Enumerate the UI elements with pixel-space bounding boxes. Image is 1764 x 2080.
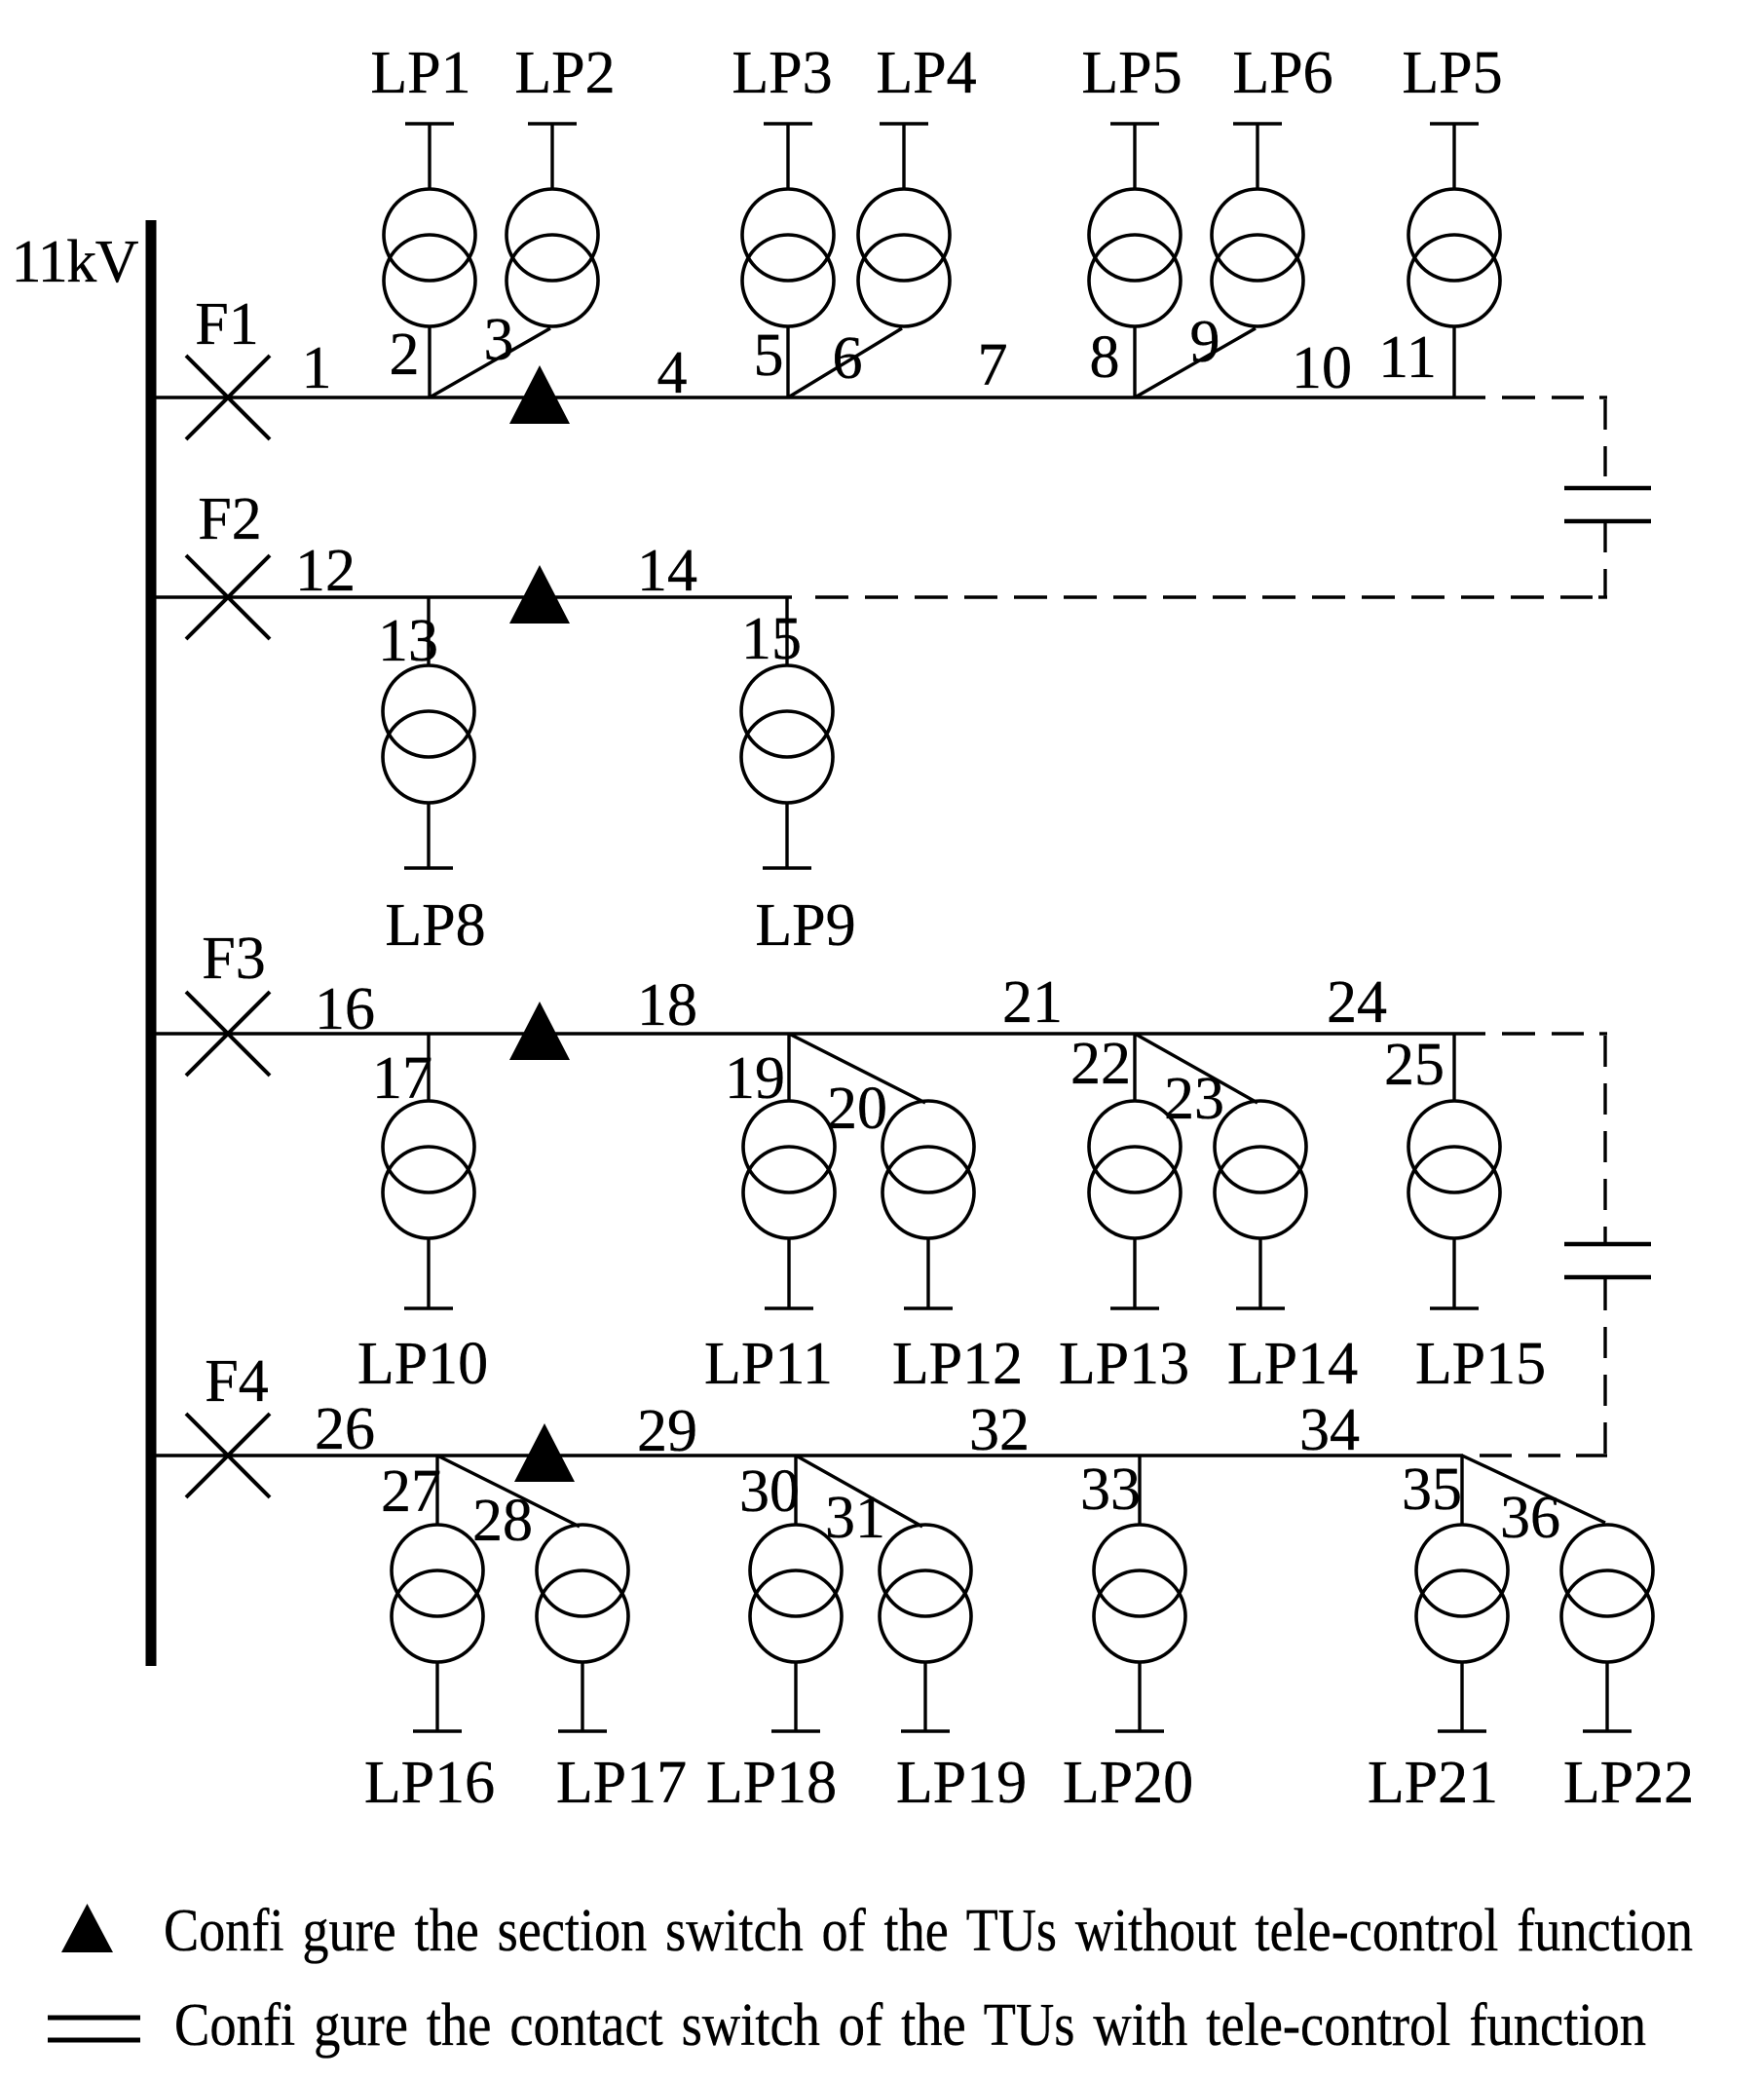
- tie wire F1-F2 (vertical dashed, lower): [1603, 523, 1606, 597]
- svg-text:3: 3: [484, 307, 514, 373]
- svg-text:32: 32: [969, 1397, 1030, 1463]
- svg-text:36: 36: [1500, 1485, 1560, 1551]
- svg-text:14: 14: [637, 538, 697, 604]
- section switch S2 (solid triangle): [509, 565, 570, 624]
- section switch S4 (solid triangle): [514, 1423, 575, 1482]
- svg-text:LP1: LP1: [370, 40, 470, 106]
- svg-text:LP5: LP5: [1402, 40, 1502, 106]
- svg-text:5: 5: [754, 322, 784, 389]
- svg-text:27: 27: [381, 1458, 441, 1525]
- load terminal LP16: [413, 1662, 462, 1731]
- contact switch C2 (tele-controlled tie switch): [1564, 1244, 1651, 1277]
- svg-text:F4: F4: [205, 1348, 268, 1415]
- legend contact-switch symbol (double line): [48, 2018, 140, 2040]
- branch wire 23 (slant to LP14): [1135, 1034, 1257, 1103]
- svg-text:LP21: LP21: [1368, 1750, 1498, 1816]
- svg-text:31: 31: [825, 1485, 885, 1551]
- load terminal LP11: [765, 1238, 813, 1308]
- transformer LP14: [1215, 1101, 1306, 1238]
- wire drop node 5 (LP3 branch): [786, 326, 789, 397]
- wire drop node 19 (LP11 branch): [787, 1034, 790, 1101]
- svg-text:LP14: LP14: [1227, 1331, 1358, 1397]
- svg-text:LP12: LP12: [892, 1331, 1023, 1397]
- svg-text:7: 7: [978, 332, 1008, 398]
- transformer LP10: [383, 1101, 474, 1238]
- svg-text:10: 10: [1292, 335, 1352, 401]
- branch wire 31 (slant to LP19): [796, 1456, 922, 1527]
- svg-text:23: 23: [1164, 1066, 1224, 1132]
- svg-text:22: 22: [1070, 1031, 1131, 1097]
- svg-text:16: 16: [315, 976, 375, 1042]
- wire drop node 25 (LP15 branch): [1452, 1034, 1455, 1101]
- svg-text:25: 25: [1384, 1032, 1445, 1098]
- load terminal LP13: [1110, 1238, 1159, 1308]
- feeder breaker F2 (X symbol): [186, 555, 270, 639]
- transformer LP1: [384, 189, 475, 326]
- svg-text:29: 29: [637, 1398, 697, 1464]
- svg-text:F2: F2: [198, 486, 261, 552]
- transformer LP12: [882, 1101, 974, 1238]
- feeder F2 tie wire (dashed): [815, 595, 1607, 598]
- svg-text:LP22: LP22: [1563, 1750, 1694, 1816]
- feeder breaker F1 (X symbol): [186, 356, 270, 439]
- transformer LP18: [750, 1525, 842, 1662]
- transformer LP6: [1212, 189, 1303, 326]
- svg-text:LP20: LP20: [1063, 1750, 1193, 1816]
- svg-text:28: 28: [472, 1488, 533, 1554]
- svg-text:LP4: LP4: [876, 40, 976, 106]
- svg-text:LP18: LP18: [706, 1750, 837, 1816]
- svg-text:24: 24: [1327, 969, 1387, 1036]
- svg-text:LP17: LP17: [556, 1750, 687, 1816]
- svg-text:LP15: LP15: [1415, 1331, 1546, 1397]
- transformer LP17: [537, 1525, 628, 1662]
- feeder F1 tie wire (dashed): [1502, 396, 1607, 398]
- transformer LP16: [392, 1525, 483, 1662]
- load terminal LP14: [1236, 1238, 1285, 1308]
- tie wire F3-F4 (vertical dashed, upper): [1603, 1036, 1606, 1244]
- transformer LP9: [741, 665, 833, 803]
- load terminal LP18: [771, 1662, 820, 1731]
- svg-text:F3: F3: [202, 926, 265, 992]
- tie wire F3-F4 (vertical dashed, lower): [1603, 1279, 1606, 1456]
- svg-text:LP10: LP10: [357, 1331, 488, 1397]
- svg-text:26: 26: [315, 1396, 375, 1462]
- branch wire 9 (slant to LP6): [1135, 328, 1256, 397]
- transformer LP11: [743, 1101, 835, 1238]
- feeder breaker F3 (X symbol): [186, 992, 270, 1076]
- branch wire 20 (slant to LP12): [789, 1034, 925, 1103]
- svg-text:LP9: LP9: [755, 892, 855, 959]
- wire drop node 15 (LP9 branch): [785, 597, 788, 666]
- wire drop node 33 (LP20 branch): [1138, 1456, 1141, 1525]
- svg-text:21: 21: [1002, 969, 1063, 1036]
- svg-text:LP13: LP13: [1059, 1331, 1189, 1397]
- svg-text:LP16: LP16: [364, 1750, 495, 1816]
- wire drop node 30 (LP18 branch): [794, 1456, 797, 1525]
- transformer LP3: [742, 189, 834, 326]
- svg-text:9: 9: [1190, 309, 1220, 375]
- svg-text:LP11: LP11: [704, 1331, 833, 1397]
- feeder F3 tie wire (dashed): [1502, 1032, 1607, 1035]
- feeder F4 wire (solid main line): [151, 1454, 1463, 1456]
- svg-text:LP8: LP8: [385, 892, 485, 959]
- transformer LP13: [1089, 1101, 1181, 1238]
- wire drop node 11 (LP5 branch): [1452, 326, 1455, 397]
- load terminal LP5: [1430, 124, 1479, 189]
- transformer LP15: [1408, 1101, 1500, 1238]
- svg-text:34: 34: [1299, 1397, 1360, 1463]
- svg-text:LP2: LP2: [514, 40, 615, 106]
- feeder F2 wire (solid main line): [151, 595, 792, 598]
- 11kV busbar: [146, 220, 157, 1666]
- load terminal LP6: [1233, 124, 1282, 189]
- svg-text:4: 4: [657, 340, 688, 406]
- svg-text:LP6: LP6: [1232, 40, 1332, 106]
- svg-text:12: 12: [295, 538, 356, 604]
- svg-text:LP5: LP5: [1081, 40, 1182, 106]
- svg-text:LP19: LP19: [896, 1750, 1027, 1816]
- load terminal LP8: [404, 803, 453, 868]
- load terminal LP22: [1583, 1662, 1632, 1731]
- section switch S3 (solid triangle): [509, 1002, 570, 1060]
- legend section-switch symbol (solid triangle): [61, 1904, 113, 1952]
- load terminal LP9: [763, 803, 811, 868]
- load terminal LP21: [1438, 1662, 1486, 1731]
- svg-text:F1: F1: [195, 291, 258, 358]
- branch wire 3 (slant to LP2): [430, 328, 550, 397]
- load terminal LP10: [404, 1238, 453, 1308]
- branch wire 6 (slant to LP4): [788, 328, 902, 397]
- branch wire 36 (slant to LP22): [1462, 1456, 1605, 1523]
- svg-text:Confi gure the contact switch: Confi gure the contact switch of the TUs…: [174, 1992, 1646, 2059]
- svg-text:LP3: LP3: [732, 40, 832, 106]
- transformer LP22: [1561, 1525, 1653, 1662]
- transformer LP21: [1416, 1525, 1508, 1662]
- svg-text:15: 15: [741, 606, 802, 672]
- svg-text:35: 35: [1402, 1456, 1462, 1523]
- tie wire F1-F2 (vertical dashed, upper): [1603, 399, 1606, 476]
- branch wire 28 (slant to LP17): [437, 1456, 580, 1527]
- svg-text:18: 18: [637, 972, 697, 1039]
- load terminal LP3: [764, 124, 812, 189]
- feeder F4 tie wire (dashed): [1480, 1454, 1607, 1456]
- wire drop node 27 (LP16 branch): [435, 1456, 438, 1525]
- transformer LP5: [1089, 189, 1181, 326]
- wire drop node 2 (LP1 branch): [428, 326, 431, 397]
- transformer LP8: [383, 665, 474, 803]
- svg-text:1: 1: [302, 335, 332, 401]
- contact switch C1 (tele-controlled tie switch): [1564, 488, 1651, 521]
- transformer LP19: [880, 1525, 971, 1662]
- feeder breaker F4 (X symbol): [186, 1414, 270, 1497]
- load terminal LP17: [558, 1662, 607, 1731]
- transformer LP2: [507, 189, 598, 326]
- feeder F1 wire (solid main line): [151, 396, 1485, 398]
- transformer LP5: [1408, 189, 1500, 326]
- section switch S1 (solid triangle): [509, 365, 570, 424]
- transformer LP20: [1094, 1525, 1185, 1662]
- svg-text:33: 33: [1080, 1456, 1141, 1523]
- load terminal LP15: [1430, 1238, 1479, 1308]
- svg-text:Confi gure the section switch: Confi gure the section switch of the TUs…: [164, 1898, 1693, 1964]
- wire drop node 17 (LP10 branch): [427, 1034, 430, 1101]
- load terminal LP12: [904, 1238, 953, 1308]
- load terminal LP20: [1115, 1662, 1164, 1731]
- load terminal LP1: [405, 124, 454, 189]
- wire drop node 8 (LP5 branch): [1133, 326, 1136, 397]
- svg-text:6: 6: [833, 325, 863, 392]
- load terminal LP5: [1110, 124, 1159, 189]
- load terminal LP4: [880, 124, 928, 189]
- svg-text:8: 8: [1090, 324, 1120, 391]
- wire drop node 22 (LP13 branch): [1133, 1034, 1136, 1101]
- wire drop node 13 (LP8 branch): [427, 597, 430, 666]
- svg-text:11: 11: [1378, 324, 1437, 391]
- feeder F3 wire (solid main line): [151, 1032, 1485, 1035]
- svg-text:20: 20: [827, 1076, 887, 1142]
- svg-text:11kV: 11kV: [12, 229, 139, 295]
- wire drop node 35 (LP21 branch): [1460, 1456, 1463, 1525]
- transformer LP4: [858, 189, 950, 326]
- svg-text:2: 2: [390, 321, 420, 388]
- load terminal LP19: [901, 1662, 950, 1731]
- svg-text:30: 30: [739, 1458, 800, 1525]
- load terminal LP2: [528, 124, 577, 189]
